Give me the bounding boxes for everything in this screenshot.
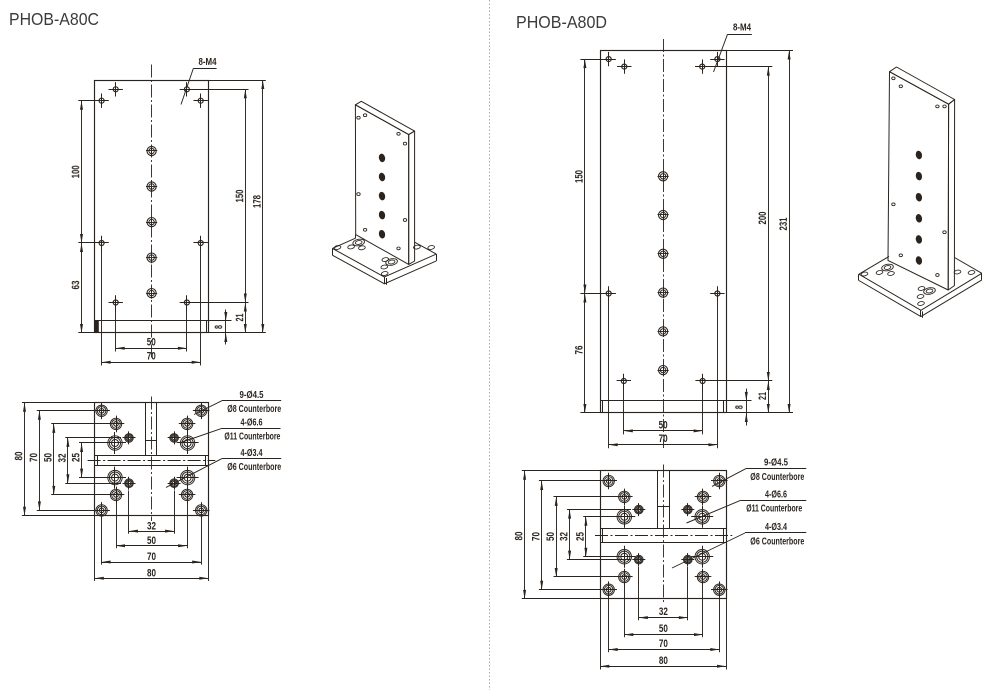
svg-text:21: 21: [757, 392, 769, 400]
D bottom view horizontal centerline: [595, 535, 732, 537]
C big hole top-right: [177, 442, 199, 444]
C M4 hole inner bottom-right: [180, 302, 194, 304]
C M4 hole inner top-right: [180, 89, 194, 91]
dimension 50 line: [116, 545, 187, 547]
svg-text:4-Ø6.6: 4-Ø6.6: [765, 489, 787, 500]
C ring hole bottom-left: [108, 494, 125, 496]
D isometric plate front face: [888, 72, 949, 290]
svg-text:70: 70: [659, 433, 668, 445]
D center counterbored hole 6: [658, 370, 669, 372]
dimension 70 line: [39, 411, 41, 511]
svg-text:8-M4: 8-M4: [199, 57, 217, 68]
svg-text:150: 150: [574, 170, 586, 183]
dimension 150 line: [584, 59, 586, 293]
svg-text:Ø8 Counterbore: Ø8 Counterbore: [227, 404, 281, 415]
dimension 76 line: [584, 294, 586, 414]
dimension 63 line: [81, 243, 83, 333]
dimension 70 line: [102, 362, 201, 364]
svg-text:32: 32: [57, 454, 69, 463]
svg-text:200: 200: [757, 212, 769, 225]
D big hole bottom-right: [691, 556, 713, 558]
C big hole bottom-left: [104, 477, 126, 479]
C isometric plate front face: [355, 105, 408, 265]
D isometric base bottom edges: [859, 280, 982, 317]
svg-text:9-Ø4.5: 9-Ø4.5: [764, 458, 788, 469]
svg-text:150: 150: [234, 190, 246, 203]
svg-text:4-Ø3.4: 4-Ø3.4: [765, 522, 787, 533]
C bottom view vertical centerline: [151, 397, 153, 522]
C small hole bottom-right: [168, 483, 181, 485]
C center counterbored hole 2: [146, 186, 157, 188]
D isometric plate side face: [948, 100, 954, 291]
D bottom view rib band: [600, 528, 726, 530]
dimension 80 line: [600, 666, 726, 668]
svg-text:32: 32: [659, 606, 668, 618]
C isometric plate top face: [355, 101, 414, 134]
C base strip left edge: [95, 321, 99, 333]
dimension 231 line: [789, 51, 791, 414]
D big hole top-left: [613, 516, 635, 518]
C isometric base top face edges: [332, 248, 436, 277]
C center counterbored hole 1: [146, 150, 157, 152]
svg-text:32: 32: [147, 520, 156, 532]
D M4 hole inner bottom-right: [695, 380, 709, 382]
C bottom view square outline: [95, 403, 209, 516]
C M4 hole inner bottom-left: [109, 302, 123, 304]
D isometric plate corner screw holes: [892, 77, 895, 80]
C small hole top-right: [168, 437, 181, 439]
svg-text:PHOB-A80D: PHOB-A80D: [516, 12, 607, 32]
C base strip right edge: [206, 321, 208, 333]
D M4 hole outer top-left: [602, 59, 616, 61]
C big hole top-left (6.6/11cb): [104, 442, 126, 444]
dimension 70 line: [541, 481, 543, 590]
svg-text:21: 21: [234, 314, 246, 322]
svg-text:100: 100: [70, 165, 82, 178]
svg-text:178: 178: [252, 195, 264, 208]
D extension lines: [726, 50, 793, 52]
D center counterbored hole 2: [658, 214, 669, 216]
C ring hole top-left: [108, 423, 125, 425]
D ring hole bottom-left: [616, 576, 633, 578]
C isometric plate center holes: [378, 153, 386, 163]
C isometric plate side face: [409, 131, 415, 264]
dimension 150 line: [245, 89, 247, 302]
svg-text:Ø11 Counterbore: Ø11 Counterbore: [746, 504, 802, 515]
D bottom view extension lines left: [583, 516, 617, 518]
C bottom view horizontal centerline: [88, 460, 216, 462]
C corner hole bottom-right: [193, 510, 210, 512]
D M4 hole outer bottom-right: [710, 293, 724, 295]
svg-text:80: 80: [513, 532, 525, 541]
svg-text:Ø8 Counterbore: Ø8 Counterbore: [750, 472, 804, 483]
dimension 25 line: [81, 443, 83, 478]
dimension 50 line: [116, 348, 187, 350]
C isometric plate-to-base joint edge: [355, 235, 357, 239]
svg-text:PHOB-A80C: PHOB-A80C: [9, 9, 99, 29]
dimension 50 line: [624, 430, 703, 432]
D small hole bottom-right: [681, 559, 694, 561]
C big hole bottom-right: [177, 477, 199, 479]
D bottom view square outline: [601, 471, 727, 599]
D front view centerline: [663, 39, 665, 448]
svg-text:50: 50: [43, 453, 55, 462]
C front view centerline: [151, 65, 153, 359]
svg-text:50: 50: [147, 535, 156, 547]
dimension 25 line: [585, 517, 587, 557]
svg-text:25: 25: [575, 532, 587, 541]
svg-text:50: 50: [659, 623, 668, 635]
svg-text:70: 70: [147, 351, 156, 363]
dimension 70 line: [609, 649, 720, 651]
D M4 hole inner bottom-left: [617, 380, 631, 382]
C corner hole top-right: [193, 410, 210, 412]
D isometric base top face edges: [859, 273, 982, 310]
C isometric base bottom edges: [332, 255, 436, 284]
D big hole top-right: [691, 516, 713, 518]
D bottom view slot: [657, 471, 659, 528]
D isometric base holes: [861, 271, 868, 276]
svg-text:70: 70: [530, 532, 542, 541]
dimension 70 line: [102, 562, 202, 564]
dimension 70 line: [609, 444, 718, 446]
svg-text:76: 76: [574, 346, 586, 355]
C corner hole bottom-left: [93, 510, 110, 512]
D corner hole top-right: [711, 480, 728, 482]
dimension 8 (D base thickness): [746, 389, 748, 426]
C M4 hole outer top-left: [94, 100, 108, 102]
C small hole top-left (3.4/6cb): [123, 437, 136, 439]
C M4 hole outer bottom-right: [194, 242, 208, 244]
svg-text:4-Ø6.6: 4-Ø6.6: [241, 417, 263, 428]
svg-text:70: 70: [28, 453, 40, 462]
C front view plate outline: [95, 81, 209, 333]
svg-text:Ø6 Counterbore: Ø6 Counterbore: [227, 462, 281, 473]
dimension 50 line: [53, 424, 55, 495]
svg-text:50: 50: [545, 532, 557, 541]
svg-text:80: 80: [659, 655, 668, 667]
C M4 hole outer bottom-left: [94, 242, 108, 244]
svg-text:63: 63: [70, 281, 82, 290]
D center counterbored hole 5: [658, 331, 669, 333]
svg-text:Ø6 Counterbore: Ø6 Counterbore: [750, 537, 804, 548]
D ring hole top-left: [616, 496, 633, 498]
svg-text:70: 70: [147, 551, 156, 563]
dimension 21 line: [768, 381, 770, 413]
C corner hole top-left (4.5/8cb): [93, 410, 110, 412]
D bottom view extension lines bottom: [638, 567, 640, 621]
dimension 32 line: [67, 438, 69, 483]
dimension 50 line: [624, 634, 703, 636]
C bottom view rib band: [95, 455, 209, 457]
D base strip right edge: [723, 401, 725, 413]
C small hole bottom-left: [123, 483, 136, 485]
dimension 32 line: [569, 510, 571, 560]
D isometric plate center holes: [915, 150, 923, 160]
svg-text:8: 8: [213, 325, 225, 329]
svg-text:231: 231: [778, 218, 790, 231]
svg-text:Ø11 Counterbore: Ø11 Counterbore: [224, 432, 280, 443]
dimension 50 line: [556, 497, 558, 577]
svg-text:80: 80: [147, 567, 156, 579]
D ring hole bottom-right: [695, 576, 712, 578]
D center counterbored hole 1: [658, 176, 669, 178]
D center counterbored hole 4: [658, 292, 669, 294]
C isometric plate corner screw holes: [357, 116, 360, 119]
dimension 21 line: [245, 303, 247, 334]
dimension 80 line: [95, 578, 209, 580]
dimension 8 (base thickness): [225, 310, 227, 345]
separator dotted line: [489, 0, 491, 690]
svg-text:70: 70: [659, 638, 668, 650]
C ring hole top-right: [179, 423, 196, 425]
svg-text:50: 50: [147, 337, 156, 349]
svg-text:8-M4: 8-M4: [733, 23, 751, 34]
D M4 hole outer bottom-left: [602, 293, 616, 295]
C bottom view extension lines left: [79, 442, 108, 444]
C center counterbored hole 3: [146, 222, 157, 224]
C M4 hole inner top-left: [109, 89, 123, 91]
dimension 178 line: [262, 80, 264, 333]
D M4 hole outer top-right: [710, 59, 724, 61]
D M4 hole inner top-left: [617, 66, 631, 68]
D corner hole bottom-left: [600, 589, 617, 591]
svg-text:4-Ø3.4: 4-Ø3.4: [241, 448, 263, 459]
C center counterbored hole 4: [146, 257, 157, 259]
dimension 100 line: [81, 101, 83, 243]
svg-text:25: 25: [70, 453, 82, 462]
D big hole bottom-left: [613, 556, 635, 558]
C bottom view slot: [145, 403, 147, 456]
D front view plate outline: [601, 51, 727, 413]
svg-text:32: 32: [558, 532, 570, 541]
D M4 hole inner top-right: [695, 66, 709, 68]
D small hole top-left: [632, 509, 645, 511]
D corner hole top-left: [600, 480, 617, 482]
dimension 32 line: [129, 531, 174, 533]
dimension 200 line: [768, 67, 770, 381]
C isometric base holes: [334, 245, 341, 250]
svg-text:80: 80: [13, 452, 25, 461]
C ring hole bottom-right: [179, 494, 196, 496]
D ring hole top-right: [695, 496, 712, 498]
C front view base strip line: [95, 320, 208, 322]
C bottom view extension lines bottom: [128, 491, 130, 534]
C center counterbored hole 5: [146, 293, 157, 295]
D base strip left edge: [602, 401, 604, 413]
svg-text:9-Ø4.5: 9-Ø4.5: [240, 390, 264, 401]
D corner hole bottom-right: [711, 589, 728, 591]
dimension 80 line: [24, 403, 26, 516]
C M4 hole outer top-right: [194, 100, 208, 102]
D center counterbored hole 3: [658, 253, 669, 255]
dimension 32 line: [639, 617, 688, 619]
D small hole top-right: [681, 509, 694, 511]
svg-text:8: 8: [734, 405, 746, 409]
D small hole bottom-left: [632, 559, 645, 561]
svg-text:50: 50: [659, 419, 668, 431]
C extension lines: [208, 80, 265, 82]
D front view base strip line: [600, 400, 726, 402]
dimension 80 line: [524, 471, 526, 599]
D isometric plate top face: [890, 67, 955, 104]
D bottom view vertical centerline: [663, 465, 665, 605]
